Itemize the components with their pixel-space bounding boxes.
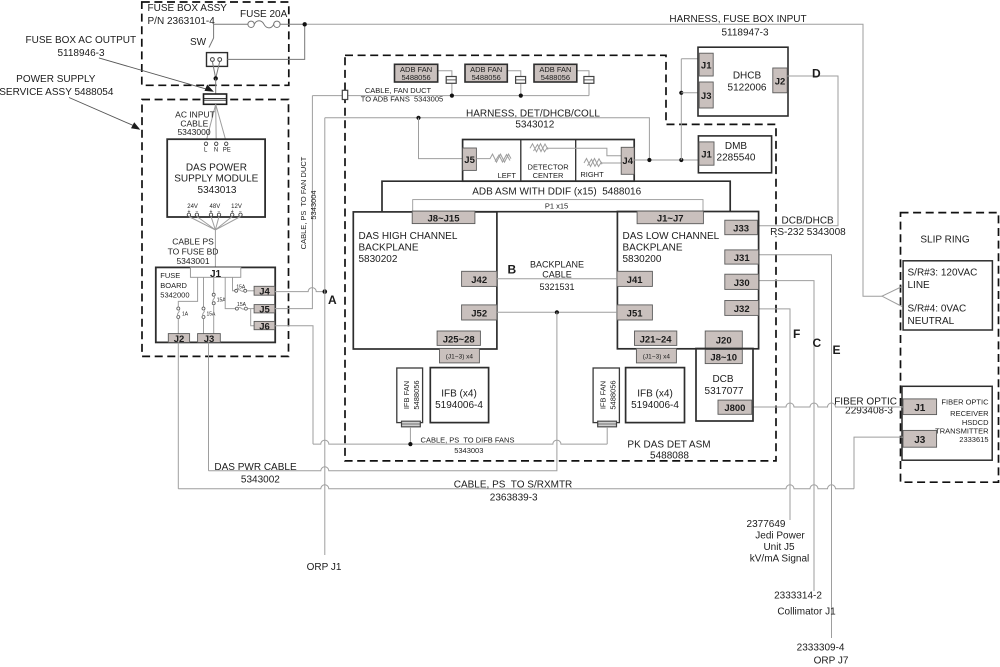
connector J3 DHCB	[699, 82, 713, 108]
wire harness to detector J5	[419, 118, 463, 159]
svg-text:5343003: 5343003	[454, 446, 483, 455]
wire J800 to fiber J1 with hops	[752, 403, 903, 407]
wire J1 stub 1 to J2	[178, 277, 197, 307]
svg-text:J800: J800	[724, 403, 745, 414]
svg-text:TO ADB FANS 5343005: TO ADB FANS 5343005	[361, 95, 443, 104]
svg-text:2285540: 2285540	[717, 153, 756, 164]
svg-text:NEUTRAL: NEUTRAL	[908, 316, 955, 327]
svg-text:5342000: 5342000	[160, 291, 189, 300]
svg-text:5118946-3: 5118946-3	[57, 48, 105, 59]
node fan1 bus	[450, 94, 454, 98]
filter fan2	[516, 77, 526, 84]
box detector	[463, 140, 635, 182]
svg-text:N: N	[214, 147, 218, 153]
svg-text:DAS LOW CHANNEL: DAS LOW CHANNEL	[623, 231, 720, 242]
wire DHCB J2 down to J33	[758, 76, 839, 226]
node fan2 bus	[519, 94, 523, 98]
svg-text:BACKPLANE: BACKPLANE	[359, 243, 419, 254]
wire fuse right to junction	[280, 23, 305, 25]
svg-text:DCB/DHCB: DCB/DHCB	[782, 216, 835, 227]
svg-text:CABLE, PS TO FAN DUCT: CABLE, PS TO FAN DUCT	[299, 156, 308, 249]
svg-text:J21~24: J21~24	[640, 334, 673, 345]
svg-text:J5: J5	[464, 155, 475, 166]
board DMB 2285540	[698, 136, 771, 173]
board DHCB 5122006	[698, 47, 788, 116]
svg-text:Jedi Power: Jedi Power	[755, 531, 805, 542]
svg-text:DAS HIGH CHANNEL: DAS HIGH CHANNEL	[359, 231, 458, 242]
connector J51	[617, 305, 653, 320]
connector J21~24	[635, 331, 677, 345]
svg-text:J6: J6	[259, 321, 270, 332]
svg-text:IFB (x4): IFB (x4)	[441, 389, 477, 400]
svg-text:J41: J41	[627, 275, 644, 286]
svg-text:5488056: 5488056	[541, 73, 570, 82]
svg-text:5343012: 5343012	[515, 120, 554, 131]
svg-text:5194006-4: 5194006-4	[435, 400, 483, 411]
wire J30 to C	[759, 281, 814, 591]
svg-text:J2: J2	[775, 77, 786, 88]
wire fan3 drop	[577, 71, 589, 96]
wire fan2 drop	[507, 71, 521, 96]
wire J1 stub 4 to J5 fuse	[225, 277, 235, 308]
thermistor left	[476, 154, 511, 162]
connector J4 detector	[621, 147, 634, 174]
svg-text:IFB (x4): IFB (x4)	[637, 389, 673, 400]
svg-text:5317077: 5317077	[705, 386, 744, 397]
svg-text:J51: J51	[627, 309, 644, 320]
svg-text:J1: J1	[701, 150, 712, 161]
svg-text:DAS PWR CABLE: DAS PWR CABLE	[214, 462, 297, 473]
plug IFB fan right	[598, 421, 617, 427]
svg-text:FUSE 20A: FUSE 20A	[240, 9, 288, 20]
svg-text:5488056: 5488056	[609, 380, 618, 409]
svg-text:SERVICE ASSY 5488054: SERVICE ASSY 5488054	[0, 87, 114, 98]
svg-text:5488056: 5488056	[472, 73, 501, 82]
svg-text:J52: J52	[471, 309, 487, 320]
svg-text:LEFT: LEFT	[498, 171, 517, 180]
svg-text:1A: 1A	[182, 312, 189, 318]
switch SW body	[207, 53, 228, 67]
leader arrow to AC output connector	[99, 58, 212, 91]
box IFB FAN left	[397, 368, 423, 423]
svg-text:J8~10: J8~10	[710, 353, 737, 364]
svg-text:P1 x15: P1 x15	[545, 201, 568, 210]
connector J8~10	[705, 350, 742, 364]
box fiber optic receiver	[902, 386, 992, 460]
wire IFB fan left drop	[409, 427, 411, 444]
svg-text:5118947-3: 5118947-3	[721, 28, 769, 39]
connector J41	[617, 271, 653, 286]
svg-text:2363839-3: 2363839-3	[490, 492, 538, 503]
svg-text:P/N 2363101-4: P/N 2363101-4	[148, 16, 216, 27]
dashed enclosure FUSE BOX ASSY	[142, 2, 289, 85]
svg-text:J5: J5	[259, 305, 270, 316]
dashed enclosure SLIP RING	[901, 213, 999, 483]
svg-text:J20: J20	[716, 336, 732, 347]
filter fan1	[446, 77, 456, 84]
wire CABLE PS TO DIFB FANS	[313, 440, 607, 444]
svg-text:BACKPLANE: BACKPLANE	[623, 243, 683, 254]
wire to DHCB J3	[681, 92, 699, 94]
svg-text:5488088: 5488088	[650, 451, 689, 462]
wire switch contacts converge	[212, 62, 219, 79]
svg-text:ORP J7: ORP J7	[814, 656, 849, 667]
box slip ring taps	[903, 261, 992, 330]
wire J32 to F	[759, 309, 790, 520]
box IFB FAN right	[593, 368, 619, 423]
svg-text:S/R#3: 120VAC: S/R#3: 120VAC	[908, 268, 978, 279]
board FUSE BOARD 5342000	[156, 267, 275, 342]
wire J5 to fan duct cable	[275, 96, 313, 309]
svg-text:2333314-2: 2333314-2	[774, 591, 822, 602]
dashed enclosure PK DAS DET ASM	[345, 55, 776, 461]
connector J33	[725, 220, 758, 235]
fuse 15A mid	[212, 293, 215, 296]
node fuse output junction	[303, 22, 307, 26]
svg-text:FIBER OPTIC: FIBER OPTIC	[941, 398, 989, 407]
fan ADB FAN 3	[534, 64, 577, 82]
node below switch	[214, 76, 218, 80]
svg-text:5122006: 5122006	[728, 83, 767, 94]
connector J42	[462, 271, 497, 286]
svg-text:5343004: 5343004	[309, 190, 318, 219]
connector J1 fuse board	[190, 267, 240, 277]
svg-text:J3: J3	[914, 435, 926, 446]
node DHCB J3 branch	[679, 91, 683, 95]
svg-text:FUSE BOX ASSY: FUSE BOX ASSY	[148, 3, 228, 14]
wire node to AC connector	[215, 78, 217, 94]
wire J42 to J41	[497, 278, 617, 280]
connector J20	[705, 331, 742, 348]
svg-text:CABLE, PS TO S/RXMTR: CABLE, PS TO S/RXMTR	[454, 479, 573, 490]
wire CABLE PS TO S/RXMTR	[178, 485, 854, 489]
wire P1 bottom edge	[413, 211, 703, 213]
svg-text:kV/mA Signal: kV/mA Signal	[750, 554, 809, 565]
connector fuse box AC output	[204, 94, 227, 104]
connector (J1~3) x4 high	[440, 348, 480, 363]
svg-text:5830202: 5830202	[359, 254, 398, 265]
wire harness det/dhcb/coll	[325, 118, 650, 160]
svg-text:J30: J30	[734, 278, 750, 289]
connector J3 fiber	[903, 430, 937, 447]
connector J5 fuse board	[254, 305, 275, 313]
wire fan1 drop	[438, 71, 452, 96]
wire J31 to E	[759, 255, 832, 638]
wire J4 detector to DMB	[634, 159, 699, 161]
fan ADB FAN 1	[395, 64, 438, 82]
svg-text:J4: J4	[259, 287, 270, 298]
connector J30	[725, 274, 759, 289]
wire to DHCB J1	[681, 58, 699, 60]
wire junction down to switch right	[228, 24, 305, 59]
svg-text:15A: 15A	[207, 312, 217, 318]
board DAS HIGH CHANNEL BACKPLANE	[353, 212, 497, 349]
wire J4 to node A with hop	[275, 288, 325, 292]
wire module outputs converge to fuse board	[189, 217, 241, 268]
svg-text:5343013: 5343013	[198, 185, 237, 196]
wire A line vertical	[324, 118, 326, 555]
thermistor center	[530, 144, 621, 156]
connector J25~28	[437, 331, 480, 345]
svg-text:(J1~3) x4: (J1~3) x4	[446, 354, 474, 361]
wire J6 down to DIFB fans line	[275, 326, 313, 444]
svg-text:RS-232 5343008: RS-232 5343008	[770, 227, 846, 238]
svg-text:2377649: 2377649	[747, 519, 786, 530]
box IFB (x4) right	[626, 368, 685, 423]
fuse 15A left	[202, 307, 205, 310]
svg-text:J1: J1	[701, 61, 712, 72]
svg-text:CABLE PS: CABLE PS	[172, 237, 214, 247]
svg-text:DHCB: DHCB	[733, 71, 762, 82]
svg-text:J4: J4	[622, 156, 633, 167]
wire DHCB feed vertical	[680, 59, 682, 160]
svg-text:SUPPLY MODULE: SUPPLY MODULE	[174, 174, 258, 185]
svg-text:5343001: 5343001	[176, 256, 209, 266]
wire AC connector to module terminals	[206, 104, 226, 142]
connector J1 DHCB	[699, 53, 713, 76]
svg-text:CENTER: CENTER	[533, 171, 564, 180]
svg-text:5194006-4: 5194006-4	[631, 400, 679, 411]
svg-text:Unit J5: Unit J5	[763, 542, 795, 553]
svg-text:ORP J1: ORP J1	[307, 562, 342, 573]
svg-text:POWER SUPPLY: POWER SUPPLY	[16, 74, 96, 85]
svg-text:2333309-4: 2333309-4	[797, 643, 845, 654]
wire J3 down	[208, 342, 210, 470]
svg-text:J1~J7: J1~J7	[657, 213, 684, 224]
svg-text:RIGHT: RIGHT	[580, 170, 604, 179]
svg-text:BOARD: BOARD	[160, 281, 187, 290]
node harness-DMB	[647, 158, 651, 162]
connector J800	[718, 400, 752, 414]
svg-text:SLIP RING: SLIP RING	[920, 235, 969, 246]
svg-text:CABLE: CABLE	[542, 269, 572, 279]
switch SW lever	[209, 38, 214, 48]
svg-text:IFB FAN: IFB FAN	[599, 381, 608, 409]
svg-text:15A: 15A	[237, 302, 247, 308]
chevron into slip ring	[882, 287, 902, 307]
svg-text:TO FUSE BD: TO FUSE BD	[168, 247, 219, 257]
svg-text:F: F	[793, 327, 800, 341]
wire J1 stub 2 to J3	[203, 277, 205, 307]
svg-text:RECEIVER: RECEIVER	[950, 409, 989, 418]
svg-text:15A: 15A	[236, 284, 246, 290]
svg-text:5343000: 5343000	[177, 127, 210, 137]
fuse 1A	[177, 307, 180, 310]
svg-text:J3: J3	[701, 91, 712, 102]
svg-text:PK DAS DET ASM: PK DAS DET ASM	[627, 440, 710, 451]
svg-text:DAS POWER: DAS POWER	[186, 163, 247, 174]
connector J8~J15	[412, 211, 475, 224]
leader arrow to service assy box	[69, 98, 138, 128]
box ADB ASM WITH DDIF	[382, 181, 730, 212]
connector inline fan duct	[342, 90, 347, 99]
svg-text:FUSE: FUSE	[160, 271, 180, 280]
svg-text:5488056: 5488056	[401, 73, 430, 82]
svg-text:J31: J31	[734, 253, 751, 264]
fuse F1 20A	[248, 21, 254, 27]
svg-text:J33: J33	[733, 224, 749, 235]
connector J1 DMB	[699, 142, 714, 165]
node harness J5 branch	[416, 116, 420, 120]
svg-text:S/R#4: 0VAC: S/R#4: 0VAC	[908, 304, 967, 315]
svg-text:IFB FAN: IFB FAN	[402, 381, 411, 409]
svg-text:A: A	[328, 293, 337, 307]
thermistor right	[584, 159, 621, 167]
box IFB (x4) left	[430, 368, 488, 423]
svg-text:2333615: 2333615	[959, 435, 988, 444]
svg-text:J1: J1	[914, 403, 926, 414]
connector J3 fuse board	[198, 334, 221, 343]
wire S/RXMTR to fiber J3	[854, 437, 903, 489]
board DAS LOW CHANNEL BACKPLANE	[617, 212, 758, 349]
wire harness fuse box input	[307, 24, 882, 296]
svg-text:J2: J2	[174, 334, 185, 345]
svg-text:Collimator J1: Collimator J1	[777, 607, 836, 618]
svg-text:J25~28: J25~28	[443, 334, 475, 345]
dashed enclosure POWER SUPPLY SERVICE ASSY	[142, 100, 289, 357]
connector J2 DHCB	[773, 68, 787, 93]
connector J32	[725, 301, 759, 316]
node A	[323, 289, 328, 294]
node DIFB left fan	[408, 442, 412, 446]
svg-text:B: B	[508, 263, 517, 277]
connector J52	[462, 305, 497, 320]
svg-text:FUSE BOX AC OUTPUT: FUSE BOX AC OUTPUT	[26, 35, 137, 46]
svg-text:5830200: 5830200	[623, 254, 662, 265]
box P1 x15	[413, 200, 703, 212]
svg-text:ADB ASM WITH DDIF (x15) 54880: ADB ASM WITH DDIF (x15) 5488016	[472, 187, 641, 198]
connector J5 detector	[463, 148, 477, 170]
svg-text:E: E	[833, 343, 841, 357]
svg-text:(J1~3) x4: (J1~3) x4	[643, 354, 671, 361]
node dhcb-drop-DMB	[679, 158, 683, 162]
svg-text:J8~J15: J8~J15	[428, 213, 461, 224]
connector (J1~3) x4 low	[636, 348, 676, 363]
svg-text:J32: J32	[734, 304, 750, 315]
fan ADB FAN 2	[465, 64, 507, 82]
wire J1 stub 3 to J3	[213, 277, 215, 293]
svg-text:LINE: LINE	[908, 280, 931, 291]
node DAS PWR tap	[555, 310, 559, 314]
svg-text:5488056: 5488056	[412, 380, 421, 409]
svg-text:SW: SW	[190, 37, 207, 48]
board DCB 5317077	[696, 349, 753, 422]
connector J6 fuse board	[254, 321, 275, 329]
svg-text:BACKPLANE: BACKPLANE	[530, 260, 584, 270]
wire J2 down	[177, 342, 179, 488]
connector J31	[725, 250, 759, 264]
filter fan3	[584, 77, 594, 84]
plug IFB fan left	[402, 421, 421, 427]
svg-text:5321531: 5321531	[539, 282, 574, 292]
svg-text:PE: PE	[223, 147, 231, 153]
module DAS POWER SUPPLY 5343013	[167, 139, 265, 217]
wire fuse to J6 branch	[251, 309, 254, 326]
connector J2 fuse board	[168, 334, 189, 343]
svg-text:J1: J1	[210, 269, 222, 280]
wire fuse left to switch	[214, 24, 248, 38]
wire J1 stub 5 to J4 fuse	[233, 277, 235, 291]
svg-text:C: C	[813, 336, 822, 350]
svg-text:J42: J42	[471, 275, 487, 286]
wire IFB fan right drop	[606, 427, 608, 444]
label DCB/DHCB RS-232	[779, 215, 836, 227]
connector J1~J7	[637, 211, 703, 224]
svg-text:CABLE, PS TO DIFB FANS: CABLE, PS TO DIFB FANS	[421, 436, 515, 445]
fuse 15A to J5	[235, 307, 238, 310]
connector J1 fiber	[903, 399, 937, 415]
fuse 15A to J4	[235, 289, 238, 292]
connector J4 fuse board	[254, 286, 275, 295]
svg-text:HARNESS, FUSE BOX INPUT: HARNESS, FUSE BOX INPUT	[669, 14, 806, 25]
wire J52 to J51	[497, 311, 617, 313]
wire fan duct bus	[312, 95, 589, 97]
wire DAS PWR cable	[209, 312, 557, 471]
svg-text:DMB: DMB	[725, 141, 748, 152]
svg-text:5343002: 5343002	[241, 475, 280, 486]
svg-text:D: D	[812, 67, 821, 81]
svg-text:DCB: DCB	[712, 374, 733, 385]
